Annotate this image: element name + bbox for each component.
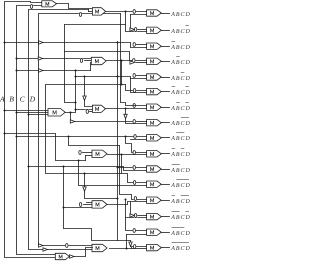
- wire rail B y70.5 with arrow: [17, 69, 91, 72]
- node output label ~ABC~D: [170, 86, 191, 96]
- wire output row 10: [162, 153, 170, 155]
- wire output row 5: [162, 77, 170, 79]
- node output label A~B~C~D: [170, 179, 191, 189]
- wire U2 output to M1 (net ABC): [106, 9, 147, 13]
- wire output row 15: [162, 232, 170, 234]
- wire drop x84.4 with arrow to x117.8: [83, 174, 118, 199]
- wire row8 rail with arrow: [70, 120, 133, 123]
- wire rail C to row11 lower: [29, 167, 147, 171]
- wire output row 4: [162, 61, 170, 63]
- svg-text:ABCD: ABCD: [170, 45, 191, 51]
- wire D distribution to row7 upper: [121, 14, 147, 106]
- output gate M10: [147, 151, 162, 157]
- output gate M12: [147, 181, 162, 187]
- wire row6 upper from drop: [126, 85, 147, 93]
- wire output row 7: [162, 107, 170, 109]
- svg-text:ABCD: ABCD: [170, 183, 191, 189]
- wire U5 zero stub: [86, 109, 93, 113]
- svg-text:ABCD: ABCD: [170, 246, 191, 252]
- node C input label: [20, 94, 25, 103]
- node output label ~AB~CD: [170, 148, 191, 158]
- wire output row 16: [162, 247, 170, 249]
- op-amp U5 memristor gate rows7-8: [92, 105, 105, 112]
- wire row1 lower input: [131, 14, 147, 16]
- svg-text:ABCD: ABCD: [170, 136, 191, 142]
- output gate M3: [147, 43, 162, 49]
- output gate M15: [147, 229, 162, 235]
- wire row13 drop to row14 lower: [125, 199, 147, 218]
- node output label A~BC~D: [170, 102, 191, 112]
- wire chain row9 to row10 upper: [126, 137, 147, 155]
- wire drop x121.8 to row6 rail: [121, 61, 123, 85]
- wire output row 13: [162, 200, 170, 202]
- wire B tap to U3: [17, 57, 92, 60]
- output gate M8: [147, 120, 162, 126]
- op-amp U9 memristor gate bottom-left: [55, 253, 69, 259]
- node B input label: [9, 94, 14, 103]
- wire rail A to row3 lower: [5, 41, 147, 48]
- svg-text:ABCD: ABCD: [170, 215, 191, 221]
- wire drop to row16 with arrow: [129, 241, 132, 247]
- wire U6 lower riser: [86, 156, 93, 161]
- svg-text:ABCD: ABCD: [170, 12, 191, 18]
- op-amp U7 memristor gate rows13-14: [92, 201, 107, 208]
- op-amp U4 memristor gate middle-left: [48, 109, 65, 116]
- wire output row 1: [162, 13, 170, 15]
- wire drop ABC to row2 lower: [126, 12, 147, 32]
- wire U7 zero stub: [79, 202, 93, 206]
- wire row16 fork lower: [132, 248, 147, 250]
- wire riser to row15 lower: [126, 235, 128, 249]
- svg-text:ABCD: ABCD: [170, 152, 191, 158]
- wire long vertical x117.8 distribution: [117, 42, 119, 241]
- wire U5 output to row7 lower: [106, 103, 147, 109]
- wire C drop to U7 lower: [63, 166, 131, 241]
- wire U1 output to U2: [57, 4, 93, 9]
- svg-text:ABCD: ABCD: [170, 168, 191, 174]
- wire U4 down branch to row8 rail: [70, 113, 72, 122]
- wire output row 12: [162, 184, 170, 186]
- wire row5 upper zero stub: [133, 73, 147, 77]
- output gate M1: [147, 10, 162, 16]
- svg-text:ABCD: ABCD: [170, 60, 191, 66]
- wire row2 arrow feed: [130, 27, 147, 31]
- wire row16 fork upper: [132, 244, 147, 248]
- wire output row 2: [162, 30, 170, 32]
- wire long drop x119 to row13 chain: [120, 146, 147, 201]
- output gate M13: [147, 197, 162, 203]
- wire row4 lower arrow feed: [130, 61, 147, 64]
- output gate M7: [147, 104, 162, 110]
- node output label ~ABCD: [170, 41, 191, 51]
- op-amp U6 memristor gate rows9-10: [92, 150, 107, 157]
- wire row2 upper branch vertical: [130, 15, 132, 28]
- wire input bus B (vertical): [16, 4, 56, 254]
- svg-text:ABCD: ABCD: [170, 106, 191, 112]
- wire drop x68.8 to long rail: [69, 137, 120, 146]
- wire rail B to row9 upper: [17, 134, 147, 138]
- node output label ~A~B~CD: [170, 227, 191, 237]
- svg-text:ABCD: ABCD: [170, 29, 191, 35]
- wire output row 14: [162, 216, 170, 218]
- wire row11 upper from x117.8: [118, 165, 147, 169]
- svg-text:ABCD: ABCD: [170, 121, 191, 127]
- wire rail x64 to row4 arrow: [65, 52, 130, 61]
- op-amp U2 memristor gate rows1-2: [92, 8, 105, 15]
- wire U3 output to row4 upper: [107, 58, 147, 62]
- wire input bus C (vertical): [28, 10, 93, 250]
- svg-text:ABCD: ABCD: [170, 231, 191, 237]
- wire U7 output to row13 lower: [108, 202, 147, 205]
- wire row14 upper branch: [130, 202, 132, 214]
- node output label ~AB~C~D: [170, 195, 191, 205]
- wire U3 lower riser from B rail: [91, 63, 92, 71]
- node D input label: [29, 94, 36, 103]
- wire output row 6: [162, 91, 170, 93]
- wire U8 output to row16: [110, 248, 132, 250]
- wire arrow on D rail bottom: [39, 243, 69, 247]
- wire rail A to U6 lower chain: [5, 134, 86, 162]
- svg-text:D: D: [29, 94, 36, 103]
- op-amp U1 memristor gate top-left: [42, 1, 57, 7]
- wire A tap to U4: [5, 110, 49, 112]
- node output label AB~C~D: [170, 117, 191, 127]
- node output label ABCD: [170, 12, 191, 18]
- wire U6 output to row10: [108, 154, 147, 156]
- wire x64 riser from U4 branch: [65, 25, 76, 103]
- wire drop to row8 lower with down arrow: [124, 109, 147, 124]
- wire output row 8: [162, 122, 170, 124]
- wire row14 arrow feed: [130, 213, 147, 217]
- wire row3 upper zero stub: [133, 42, 147, 46]
- node output label ~A~BCD: [170, 164, 191, 174]
- wire U1 top input jog: [89, 10, 93, 12]
- wire U7 upper stub: [87, 202, 93, 204]
- node output label A~BCD: [170, 56, 191, 66]
- wire drop x121.8 to D rail join: [121, 155, 123, 174]
- node A input label: [0, 94, 5, 103]
- node output label A~B~CD: [170, 132, 191, 142]
- wire U4 output riser: [66, 71, 77, 114]
- svg-text:B: B: [9, 94, 14, 103]
- wire U9 output with arrow to U8: [70, 248, 93, 259]
- svg-text:ABCD: ABCD: [170, 199, 191, 205]
- wire B tap to U4: [17, 112, 49, 114]
- wire rail to row5 lower: [75, 76, 147, 79]
- wire drop x78.2 to row12 lower: [79, 161, 147, 186]
- wire snake rail y84 and x45.7 to row12 rail: [46, 84, 147, 185]
- output gate M5: [147, 74, 162, 80]
- output gate M11: [147, 166, 162, 172]
- wire U3 zero stub: [80, 58, 92, 62]
- wire U4 to U5 input: [76, 109, 93, 111]
- output gate M16: [147, 244, 162, 250]
- output gate M4: [147, 58, 162, 64]
- wire row9 lower: [131, 139, 147, 141]
- wire output row 11: [162, 169, 170, 171]
- wire output row 9: [162, 137, 170, 139]
- node output label AB~CD: [170, 72, 191, 82]
- output gate M14: [147, 213, 162, 219]
- wire input bus A (vertical): [4, 2, 56, 258]
- op-amp U3 memristor gate rows3-4: [91, 57, 106, 64]
- wire U6 zero stub: [78, 150, 92, 154]
- svg-text:ABCD: ABCD: [170, 90, 191, 96]
- wire output row 3: [162, 46, 170, 48]
- wire input bus D (vertical): [39, 12, 121, 245]
- wire drop with arrow to U5 top input: [83, 76, 93, 107]
- wire row15 upper from drop: [126, 218, 147, 233]
- output gate M2: [147, 27, 162, 33]
- output gate M9: [147, 135, 162, 141]
- node output label ABC~D: [170, 25, 191, 35]
- node output label ~A~B~C~D: [170, 242, 191, 252]
- svg-text:C: C: [20, 94, 25, 103]
- wire arrow on C rail bottom: [43, 248, 47, 251]
- wire feed from x64 riser to row2: [65, 24, 126, 26]
- op-amp U8 memristor gate rows15-16: [92, 244, 107, 251]
- svg-text:A: A: [0, 94, 5, 103]
- wire row8 upper zero stub: [133, 119, 147, 123]
- wire branch to U7 lower input: [64, 207, 93, 209]
- output gate M6: [147, 88, 162, 94]
- wire row15 lower: [127, 234, 147, 236]
- node output label ~A~BC~D: [170, 211, 191, 221]
- wire C tap to U4: [29, 114, 49, 116]
- svg-text:ABCD: ABCD: [170, 76, 191, 82]
- wire row6 lower from row5: [131, 79, 147, 93]
